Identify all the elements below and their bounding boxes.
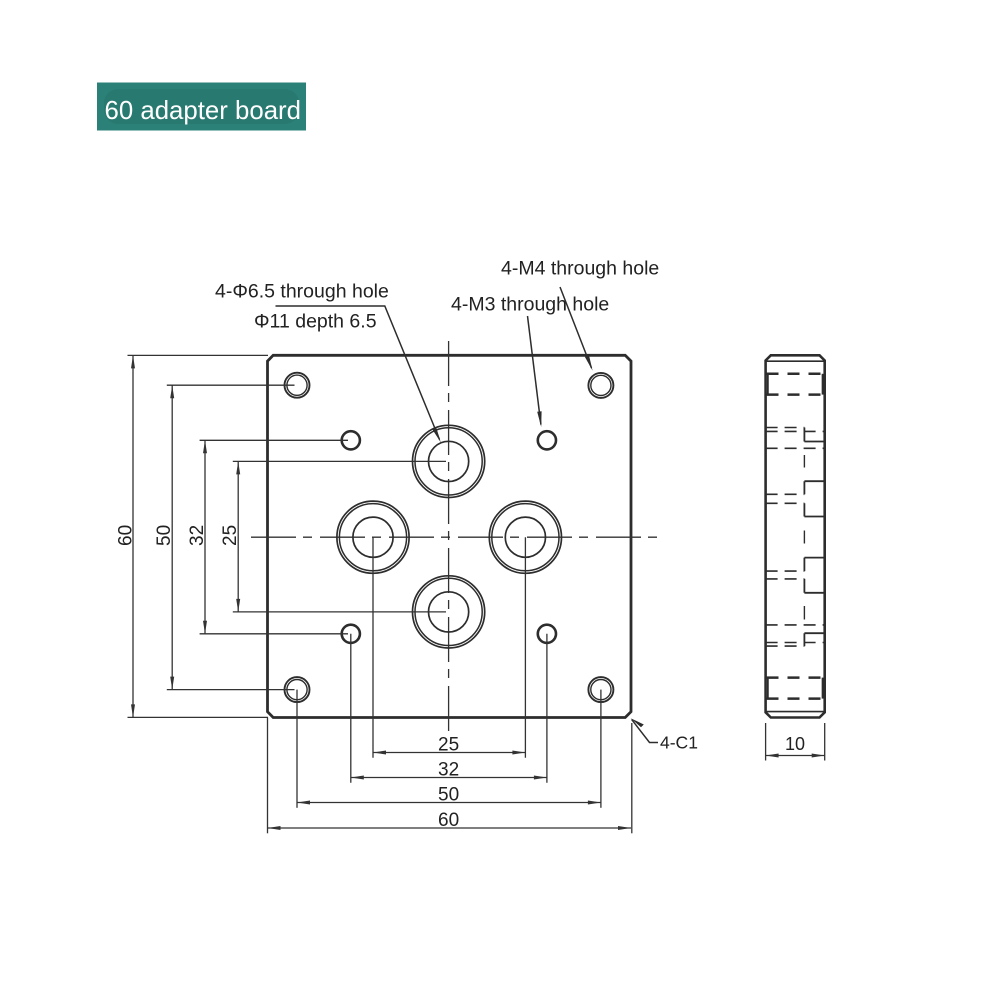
svg-text:4-M4 through hole: 4-M4 through hole (501, 258, 659, 280)
svg-text:Φ11 depth 6.5: Φ11 depth 6.5 (254, 311, 377, 333)
svg-text:60: 60 (438, 810, 459, 831)
svg-text:4-Φ6.5 through hole: 4-Φ6.5 through hole (215, 281, 389, 303)
svg-text:25: 25 (220, 525, 241, 546)
svg-text:10: 10 (785, 734, 805, 754)
svg-text:4-C1: 4-C1 (660, 733, 698, 753)
svg-text:4-M3 through hole: 4-M3 through hole (451, 294, 609, 316)
svg-text:60: 60 (116, 525, 137, 546)
svg-text:32: 32 (438, 760, 459, 781)
svg-text:25: 25 (438, 735, 459, 756)
svg-text:32: 32 (187, 525, 208, 546)
svg-text:60 adapter board: 60 adapter board (105, 97, 302, 125)
svg-text:50: 50 (154, 525, 175, 546)
svg-text:50: 50 (438, 785, 459, 806)
